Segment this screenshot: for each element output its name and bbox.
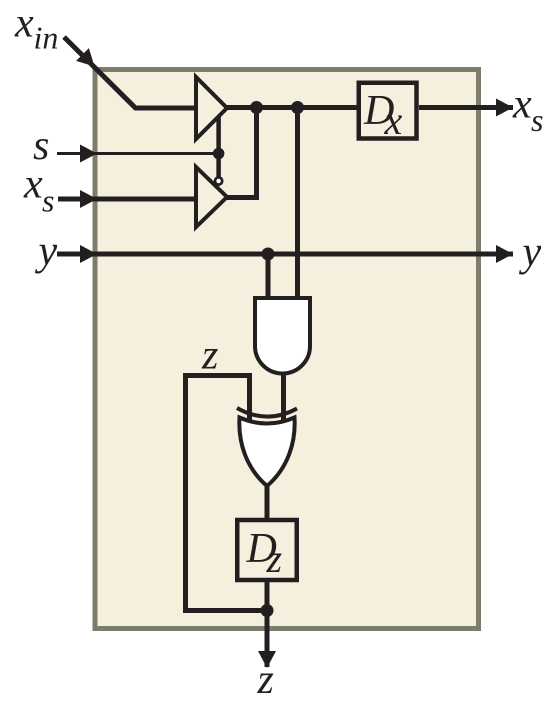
inversion bubble on U2 enable — [215, 177, 222, 184]
wire x_in lead (diagonal into box, then horizontal to buffer input) — [64, 37, 196, 108]
svg-text:x: x — [384, 98, 403, 143]
XOR gate G2 (pointing down) — [239, 418, 294, 487]
svg-text:z: z — [257, 657, 274, 703]
wire z feedback loop (from output node, up left side, into XOR left input) — [186, 376, 268, 611]
register Dz box — [237, 520, 297, 580]
svg-text:x: x — [14, 1, 34, 47]
wire s control vertical (to buffer enables) — [216, 117, 221, 178]
svg-text:y: y — [35, 229, 58, 275]
register Dx box — [359, 83, 417, 139]
wire y bus (left to right across box) — [57, 252, 513, 257]
node s junction dot — [213, 148, 225, 160]
AND gate G1 (pointing down) — [255, 298, 310, 374]
arrowhead on x_in wire at box corner — [76, 48, 94, 66]
wire s input — [57, 152, 219, 155]
wire z output leaving box — [265, 611, 270, 668]
arrowhead on x_s wire — [80, 190, 97, 208]
arrowhead on z output — [258, 651, 276, 668]
arrowhead on s wire — [80, 145, 97, 163]
svg-text:z: z — [266, 536, 283, 581]
wire Dz output down to node — [265, 580, 270, 611]
XOR extra input arc — [237, 408, 297, 417]
svg-text:in: in — [34, 20, 59, 56]
wire buffer2 output up to rail — [227, 108, 257, 198]
wire Dx output to x_s pin — [419, 105, 513, 110]
tri-state buffer U1 — [196, 77, 227, 139]
dashed-box enclosure (module boundary) — [95, 70, 479, 629]
wire AND output down to XOR input — [281, 372, 286, 421]
svg-text:x: x — [512, 82, 532, 128]
arrowhead on y wire at left box edge — [80, 245, 97, 263]
wire XOR output to Dz — [265, 485, 270, 520]
svg-text:s: s — [42, 183, 54, 219]
svg-text:z: z — [201, 333, 218, 379]
wire x_s input — [58, 197, 196, 202]
wire rail down to AND gate right input — [295, 108, 300, 302]
wire buffer1 output rail to Dx — [227, 105, 357, 110]
node junction dot A (buffer1 output) — [250, 101, 263, 114]
svg-text:s: s — [531, 102, 543, 138]
tri-state buffer U2 (active-low enable) — [196, 167, 227, 227]
node z output junction dot — [261, 604, 274, 617]
wire y tap down to AND gate left input — [266, 254, 271, 301]
svg-text:x: x — [23, 162, 43, 208]
node junction dot on y bus — [262, 248, 275, 261]
svg-text:y: y — [519, 230, 542, 276]
node junction dot B (rail tap) — [291, 101, 304, 114]
arrowhead on y wire at right output — [496, 245, 513, 263]
arrowhead on x_s output — [496, 99, 513, 117]
